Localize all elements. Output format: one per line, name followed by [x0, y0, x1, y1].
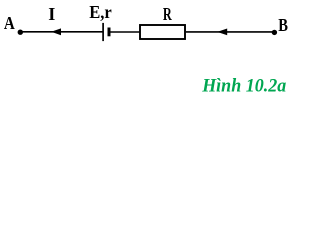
svg-text:I: I — [48, 4, 55, 24]
svg-text:B: B — [278, 15, 288, 35]
svg-text:E,r: E,r — [89, 2, 112, 22]
battery E,r long plate — [102, 23, 104, 41]
resistor R body — [140, 25, 185, 39]
wire node A to battery — [20, 31, 103, 33]
svg-text:R: R — [163, 4, 172, 24]
node A — [18, 30, 23, 35]
wire resistor to node B — [186, 31, 274, 33]
svg-text:A: A — [4, 13, 15, 33]
svg-text:Hình 10.2a: Hình 10.2a — [201, 76, 286, 97]
node B — [272, 30, 277, 35]
current arrow (right) — [217, 29, 227, 36]
battery E,r short thick plate — [108, 28, 111, 37]
current arrow I (left) — [51, 28, 61, 35]
wire battery to resistor — [109, 31, 140, 33]
